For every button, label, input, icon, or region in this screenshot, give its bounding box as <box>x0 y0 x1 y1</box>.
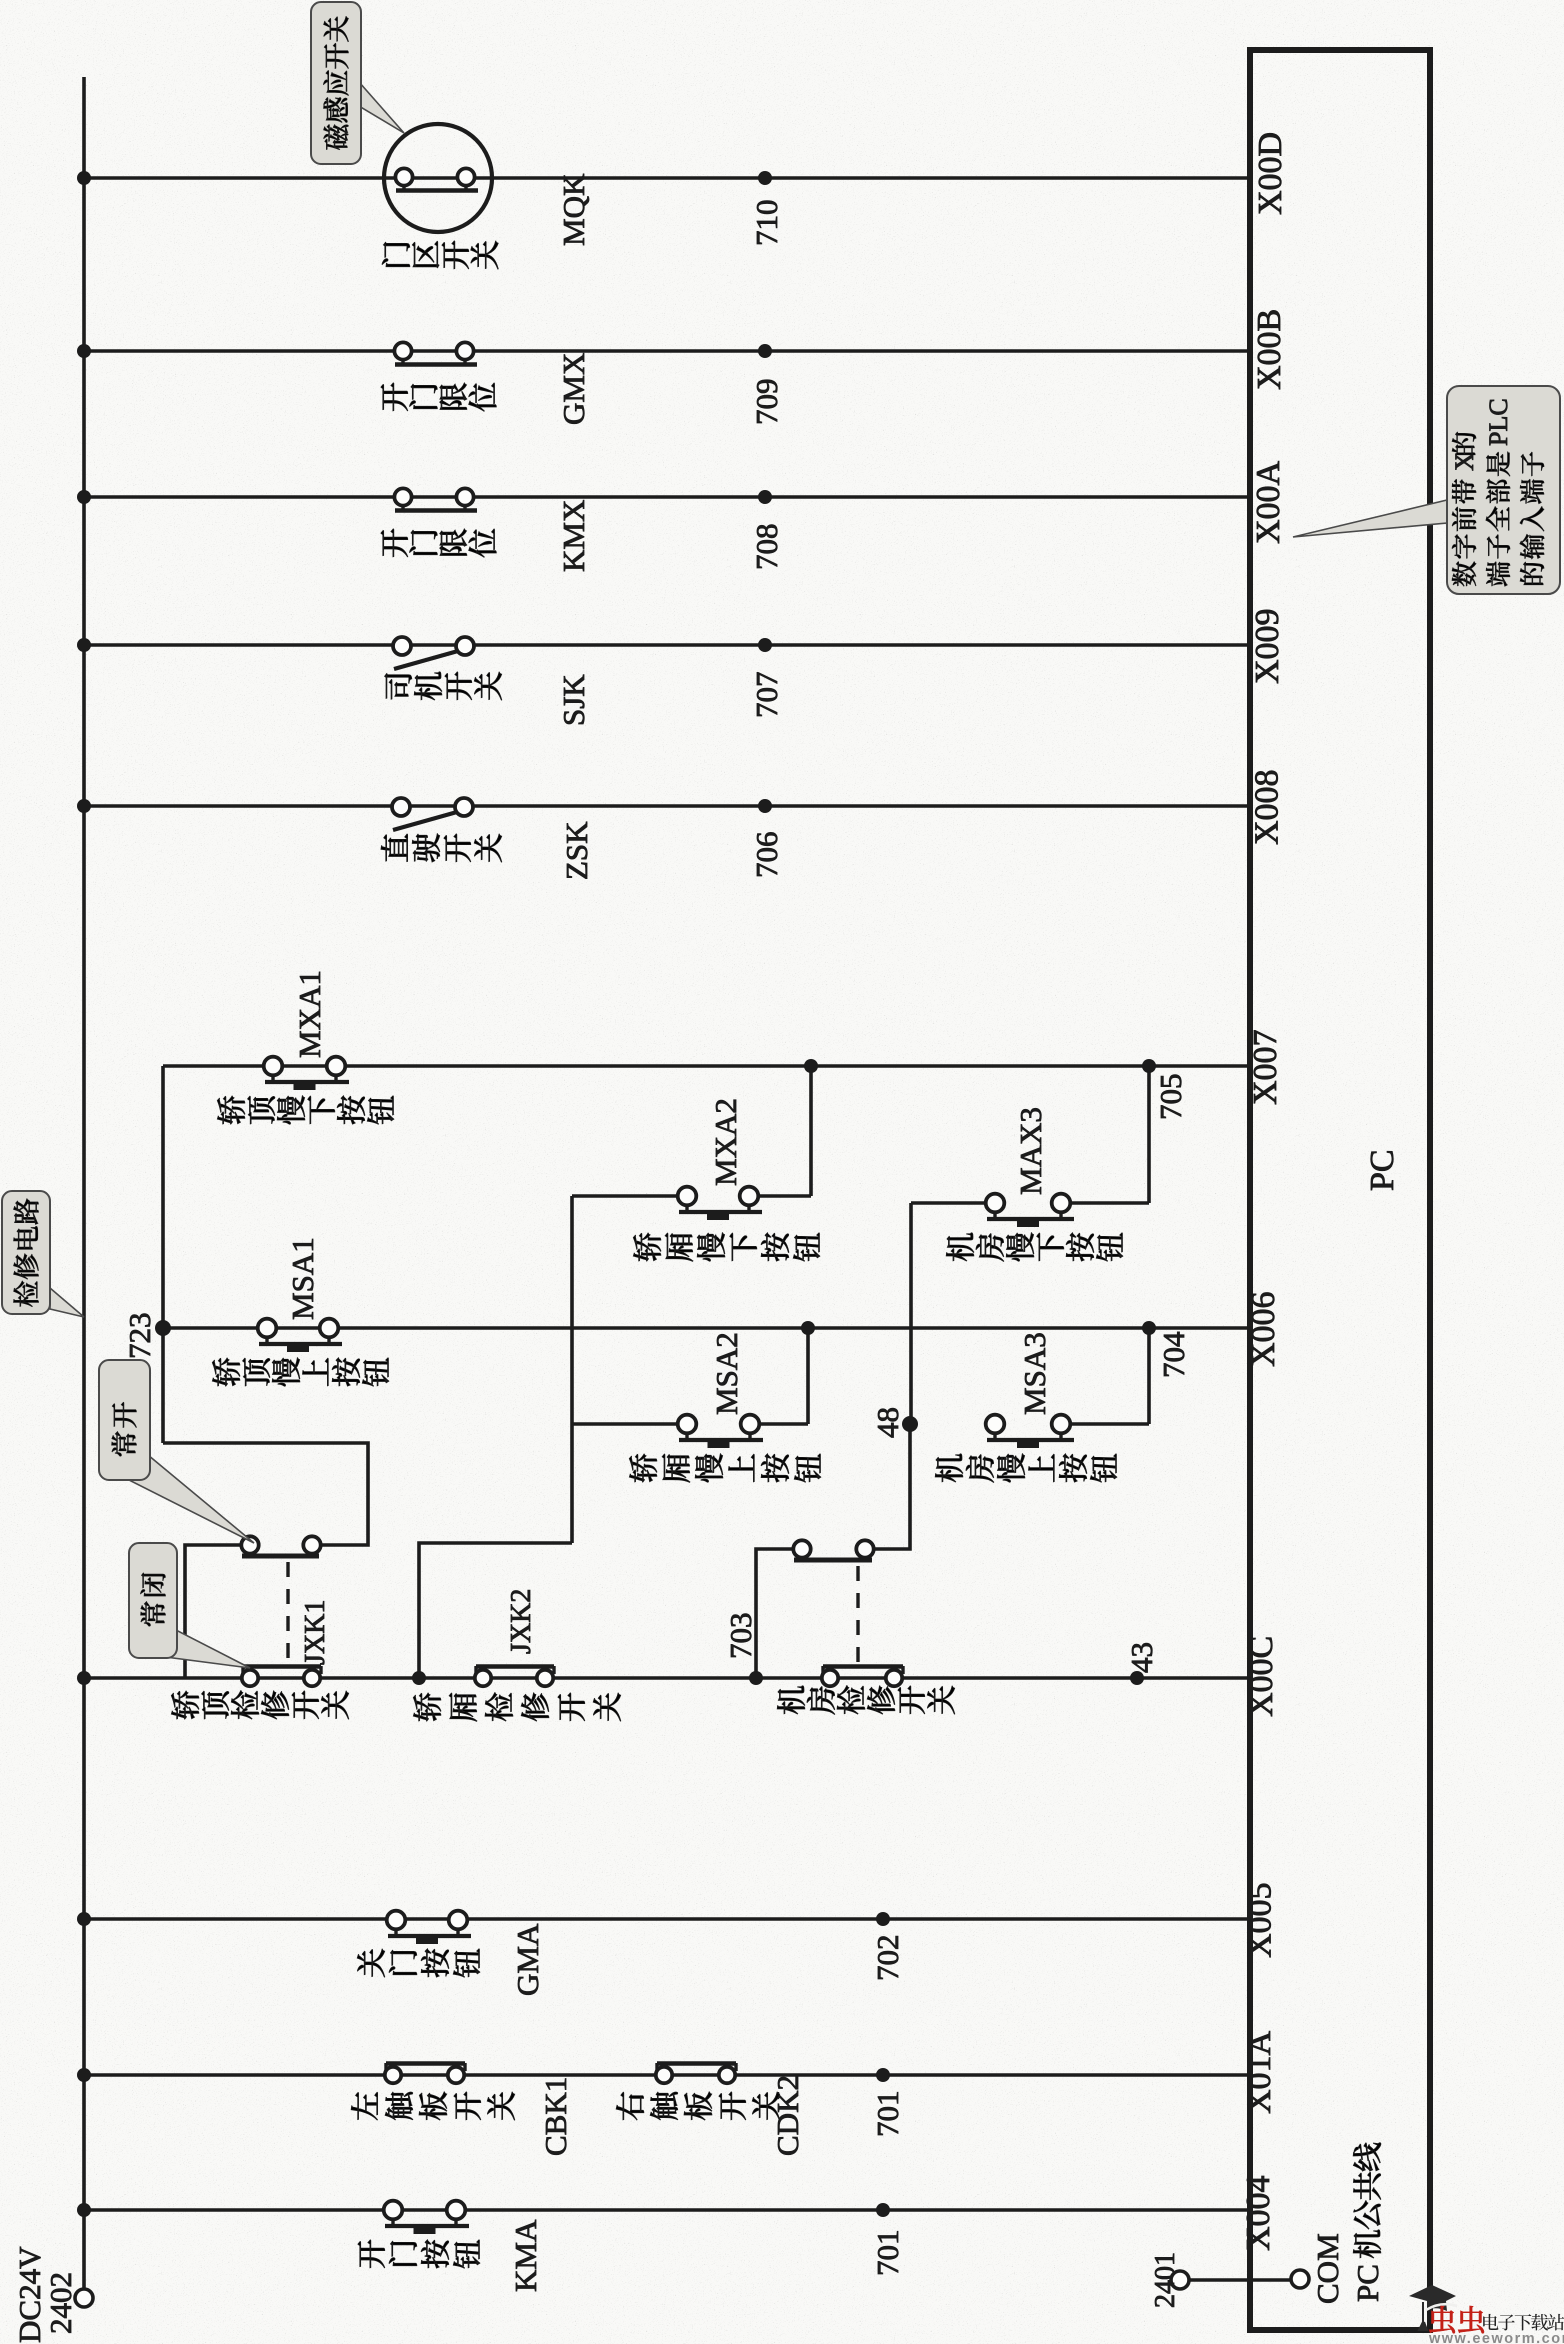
pushbutton MSA1 car-top slow-up <box>265 1337 268 1344</box>
svg-text:CBK1: CBK1 <box>538 2077 573 2156</box>
wire: rung SJK to X009 <box>84 643 1250 647</box>
wire: DC24V supply bus 2402 (left vertical rail) <box>82 77 86 2289</box>
callout bubble 检修电路 <box>50 1288 84 1317</box>
svg-text:X00B: X00B <box>1251 309 1288 390</box>
svg-text:JXK2: JXK2 <box>506 1589 537 1654</box>
svg-text:DC24V: DC24V <box>12 2246 47 2343</box>
pushbutton GMA door-close button <box>394 1929 397 1936</box>
svg-text:JXK1: JXK1 <box>300 1600 331 1665</box>
label 轿厢慢下按钮 <box>633 1233 661 1261</box>
wire: rung KMX to X00A <box>84 495 1250 499</box>
svg-text:CDK2: CDK2 <box>770 2075 805 2156</box>
svg-text:710: 710 <box>749 200 784 247</box>
left touch-plate switch CBK1 <box>386 2061 465 2066</box>
label 机房检修开关 <box>777 1686 805 1714</box>
wire: rung X00C inspection common <box>84 1676 1250 1680</box>
node 701 junction <box>876 2068 890 2082</box>
label 直驶开关 <box>381 834 408 862</box>
wire: MSA3 to 704 riser <box>1070 1422 1149 1426</box>
label 关门按钮 <box>357 1949 385 1977</box>
svg-text:MXA1: MXA1 <box>292 970 327 1058</box>
svg-text:ZSK: ZSK <box>559 821 594 880</box>
svg-text:X00C: X00C <box>1243 1636 1280 1717</box>
callout bubble 常闭 <box>158 1630 250 1668</box>
node 43 junction <box>1130 1671 1144 1685</box>
wire: JXK1 NO left lead down to X00C rung <box>185 1545 241 1678</box>
wire: riser from X007 705-node down to MAX3 <box>1147 1066 1151 1203</box>
normally-open contact of machine-room inspection switch <box>794 1558 872 1563</box>
svg-text:COM: COM <box>1310 2233 1345 2304</box>
label 开门限位 <box>381 383 408 411</box>
svg-text:723: 723 <box>122 1313 157 1360</box>
wire: riser from X006 junction down to MSA2 <box>806 1328 810 1424</box>
pushbutton MAX3 machine-room slow-down <box>993 1212 996 1219</box>
wire: MXA2 branch line <box>572 1194 678 1198</box>
door-open limit switch KMX <box>401 505 404 511</box>
right touch-plate switch CDK2 <box>657 2061 736 2066</box>
wire: riser x=572 from MXA2 down to JXK2 jog <box>570 1196 574 1543</box>
wire: MSA2 branch line <box>572 1422 678 1426</box>
callout bubble 磁感应开关 <box>359 82 404 133</box>
label 机房慢下按钮 <box>946 1233 974 1261</box>
label 轿顶慢下按钮 <box>217 1096 245 1124</box>
svg-text:GMX: GMX <box>556 353 591 425</box>
svg-text:MXA2: MXA2 <box>708 1098 743 1186</box>
svg-text:707: 707 <box>749 672 784 719</box>
wire: riser from X006 704-node down to MSA3 line <box>1147 1328 1151 1424</box>
node junction X006/MSA2 riser <box>801 1321 815 1335</box>
node junction at 419 <box>412 1671 426 1685</box>
wire: rung X007 from inspection branch <box>163 1064 1250 1068</box>
node 706 junction <box>758 799 772 813</box>
watermark graduation cap icon <box>1409 2285 1456 2311</box>
svg-text:705: 705 <box>1153 1074 1188 1121</box>
normally-open contact of JXK1 (car-top inspection switch) <box>242 1554 319 1559</box>
svg-text:43: 43 <box>1124 1642 1159 1673</box>
NC contact machine-room inspection switch <box>823 1664 903 1669</box>
NC contact JXK1 car-top inspection switch <box>243 1664 321 1669</box>
svg-text:709: 709 <box>749 379 784 426</box>
wire: jog from riser to X00C rung (JXK2 feed) <box>419 1543 572 1678</box>
svg-text:MSA1: MSA1 <box>285 1237 320 1320</box>
svg-text:703: 703 <box>723 1613 758 1660</box>
svg-text:706: 706 <box>749 832 784 879</box>
through-drive switch ZSK (knife) <box>393 812 457 830</box>
NC contact JXK2 car inspection switch <box>476 1664 554 1669</box>
PLC input module box PC <box>1250 50 1430 2330</box>
label 右触板开关 <box>616 2092 644 2120</box>
pushbutton MSA2 car slow-up <box>685 1433 688 1440</box>
terminal circle COM <box>1291 2270 1309 2288</box>
label 左触板开关 <box>351 2092 377 2120</box>
svg-text:X009: X009 <box>1249 608 1286 684</box>
svg-text:X00A: X00A <box>1250 460 1287 544</box>
node junction X007/MXA2 riser <box>804 1059 818 1073</box>
svg-text:GMA: GMA <box>510 1923 545 1996</box>
wire: MAX3 branch line <box>911 1201 986 1205</box>
pushbutton MSA3 machine-room slow-up <box>993 1433 996 1440</box>
svg-text:701: 701 <box>870 2091 905 2138</box>
wire: rung GMA to X005 <box>84 1917 1250 1921</box>
node 723 junction <box>155 1320 171 1336</box>
wire: rung X006 from 723 node <box>163 1326 1250 1330</box>
wire: riser from node 48 up to MAX3 <box>909 1203 913 1424</box>
magnetic door-zone switch MQK (circle symbol) <box>384 124 492 232</box>
callout bubble PLC input terminals note <box>1293 500 1447 537</box>
label 轿顶检修开关 <box>171 1691 199 1719</box>
wire: rung CBK1 CDK2 to X01A <box>84 2073 1250 2077</box>
wire: rung GMX to X00B <box>84 349 1250 353</box>
svg-text:PC: PC <box>1350 2264 1385 2302</box>
label 机房慢上按钮 <box>935 1454 963 1482</box>
label 开门按钮 <box>358 2240 385 2268</box>
wire: rung KMA to X004 <box>84 2208 1250 2212</box>
svg-text:X008: X008 <box>1248 769 1285 845</box>
svg-text:KMX: KMX <box>556 500 591 572</box>
svg-text:702: 702 <box>870 1935 905 1982</box>
node 709 junction <box>758 344 772 358</box>
label 开门限位 <box>381 529 408 557</box>
wire: rung ZSK to X008 <box>84 804 1250 808</box>
svg-text:MSA3: MSA3 <box>1017 1332 1052 1415</box>
wire: rung MQK to X00D <box>84 176 1250 180</box>
node 701 junction <box>876 2203 890 2217</box>
wire: COM link 2401 <box>1189 2278 1291 2282</box>
svg-text:704: 704 <box>1156 1331 1191 1378</box>
node 702 junction <box>876 1912 890 1926</box>
svg-text:48: 48 <box>870 1407 905 1438</box>
svg-text:X004: X004 <box>1240 2175 1277 2251</box>
node junction at 756 (703) <box>749 1671 763 1685</box>
svg-text:701: 701 <box>870 2230 905 2277</box>
svg-text:MQK: MQK <box>556 173 591 246</box>
svg-text:KMA: KMA <box>508 2219 543 2292</box>
svg-text:X005: X005 <box>1242 1882 1279 1958</box>
terminal circle 2401 <box>1171 2271 1189 2289</box>
svg-text:X007: X007 <box>1247 1029 1284 1105</box>
svg-text:X01A: X01A <box>1241 2030 1278 2114</box>
svg-text:www.eeworm.com: www.eeworm.com <box>1428 2331 1564 2344</box>
watermark 电子下载站 <box>1483 2314 1564 2331</box>
wire: riser from X007 junction down to MXA2 <box>809 1066 813 1196</box>
svg-text:2401: 2401 <box>1150 2252 1181 2308</box>
node 704 junction <box>1142 1321 1156 1335</box>
svg-text:PC: PC <box>1364 1149 1401 1191</box>
wire: NO right lead up to node 48 <box>874 1424 910 1549</box>
svg-text:SJK: SJK <box>556 674 591 726</box>
pushbutton MXA1 car-top slow-down <box>271 1075 274 1082</box>
wire: NO left lead down to X00C rung <box>756 1549 793 1678</box>
node 708 junction <box>758 490 772 504</box>
watermark 虫虫 red logo <box>1429 2306 1484 2333</box>
wire: jog from 723 riser to JXK1 NO contact <box>163 1443 368 1545</box>
wire: riser from X007 rung down to 723 node and below <box>161 1066 165 1443</box>
svg-text:X006: X006 <box>1245 1291 1282 1367</box>
terminal: open circle at bottom of bus <box>75 2289 93 2307</box>
svg-text:708: 708 <box>749 524 784 571</box>
svg-text:MAX3: MAX3 <box>1013 1107 1048 1195</box>
label 轿厢慢上按钮 <box>629 1454 657 1482</box>
pushbutton KMA door-open button <box>391 2219 394 2226</box>
node 705 junction <box>1142 1059 1156 1073</box>
node 710 junction <box>758 171 772 185</box>
label 司机开关 <box>385 673 412 699</box>
callout bubble 常开 <box>127 1455 254 1543</box>
svg-text:MSA2: MSA2 <box>709 1332 744 1415</box>
svg-text:X00D: X00D <box>1252 132 1289 215</box>
attendant switch SJK (knife) <box>394 651 458 669</box>
label 门区开关 <box>382 242 410 267</box>
svg-text:PLC: PLC <box>1484 398 1513 446</box>
label 轿厢检修开关 <box>413 1693 441 1721</box>
label 轿顶慢上按钮 <box>212 1358 240 1386</box>
node 707 junction <box>758 638 772 652</box>
door-open limit switch GMX <box>401 359 404 365</box>
pushbutton MXA2 car slow-down <box>685 1205 688 1212</box>
node 48 junction <box>902 1416 918 1432</box>
svg-text:2402: 2402 <box>43 2272 78 2334</box>
mechanical link dashed line machine-room switch <box>856 1566 859 1664</box>
mechanical link dashed line JXK1 <box>286 1562 289 1662</box>
